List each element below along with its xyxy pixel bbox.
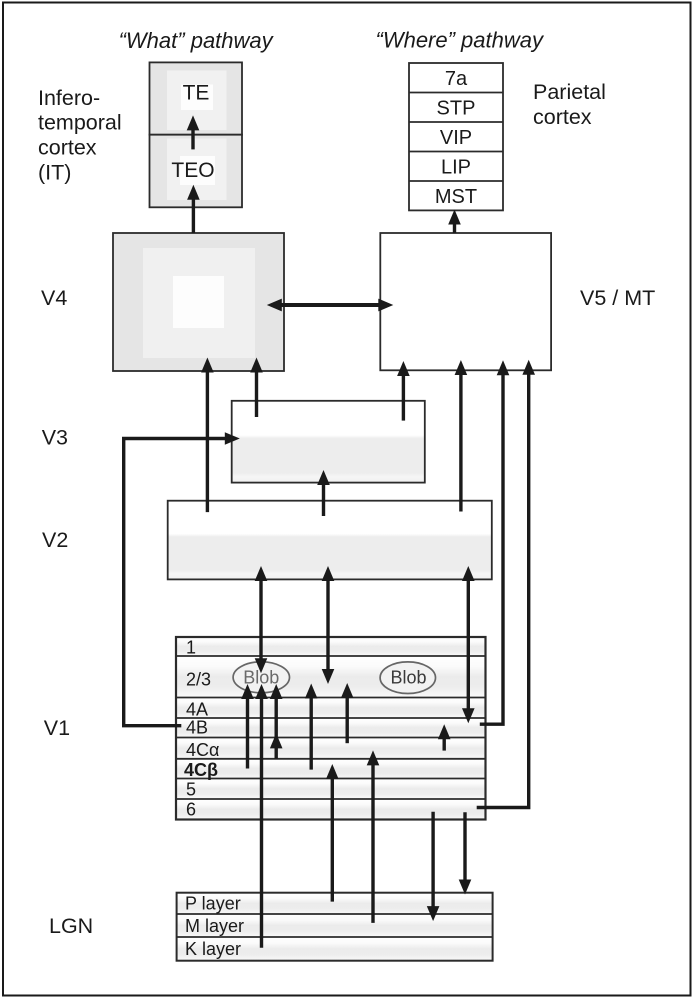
arrow 4C alpha to layer 2/3 [341, 683, 354, 743]
arrow V4 to TEO [187, 185, 200, 233]
blob ellipse right [380, 662, 435, 694]
svg-text:LIP: LIP [441, 157, 471, 179]
arrow 4C alpha to blob [270, 684, 283, 759]
svg-text:6: 6 [186, 800, 196, 820]
svg-text:V3: V3 [42, 426, 68, 450]
svg-text:4Cβ: 4Cβ [184, 760, 218, 780]
svg-text:4B: 4B [186, 718, 208, 738]
svg-text:(IT): (IT) [38, 161, 71, 185]
LGN row labels [185, 894, 244, 960]
arrow V5/MT to MST [448, 210, 461, 234]
arrow 4C alpha to 4B right [438, 724, 451, 750]
arrow V2 to V3 [317, 470, 330, 516]
box V4 [113, 233, 284, 371]
box V5/MT [380, 233, 551, 370]
svg-text:2/3: 2/3 [186, 670, 211, 690]
arrow V2 to V4 [201, 358, 214, 513]
arrow LGN K layer to blob [255, 684, 268, 948]
arrow V3 to V5/MT [397, 361, 410, 421]
svg-text:MST: MST [435, 186, 477, 208]
double arrow V2 and layer 2/3 [322, 566, 335, 684]
svg-text:Parietal: Parietal [533, 80, 606, 104]
svg-text:V1: V1 [44, 716, 70, 740]
svg-text:“What” pathway: “What” pathway [119, 28, 275, 53]
box TEO [150, 135, 243, 208]
blob ellipse left [233, 662, 289, 693]
arrow V3 to V4 [250, 358, 263, 418]
wire 4B feedback loop to V3 [124, 432, 240, 726]
svg-text:V5 / MT: V5 / MT [580, 286, 655, 310]
svg-text:Infero-: Infero- [38, 86, 100, 110]
arrow LGN M layer to 4C alpha [367, 750, 380, 923]
double arrow V4 and V5/MT [267, 299, 394, 312]
svg-text:V2: V2 [42, 528, 68, 552]
svg-text:P layer: P layer [185, 894, 241, 914]
arrow 4C beta to layer 2/3 [305, 684, 318, 770]
wire layer 6 to V5/MT right route [477, 360, 535, 808]
svg-text:TEO: TEO [171, 159, 214, 182]
double arrow V2 and layer 4B [462, 566, 475, 723]
arrow layer 6 to LGN P layer [459, 812, 472, 894]
arrowhead 4C alpha to 4B [270, 733, 283, 748]
svg-text:temporal: temporal [38, 111, 122, 135]
box parietal stack 7a STP VIP LIP MST [409, 63, 503, 210]
arrow LGN P layer to 4C beta [326, 764, 339, 902]
box V3 [232, 401, 425, 483]
box V1 layers [176, 637, 486, 820]
double arrow V2 and blob [255, 566, 268, 673]
svg-text:4Cα: 4Cα [186, 740, 219, 760]
svg-text:1: 1 [186, 638, 196, 658]
svg-text:V4: V4 [41, 286, 67, 310]
svg-text:Blob: Blob [390, 668, 426, 688]
svg-text:LGN: LGN [49, 914, 93, 938]
box V2 [168, 501, 492, 580]
svg-text:VIP: VIP [440, 127, 472, 149]
svg-text:5: 5 [186, 780, 196, 800]
arrow 4C beta to blob [241, 684, 254, 769]
svg-text:M layer: M layer [185, 916, 244, 936]
svg-text:7a: 7a [445, 68, 468, 90]
svg-text:“Where” pathway: “Where” pathway [376, 28, 546, 53]
svg-text:STP: STP [437, 98, 476, 120]
svg-text:cortex: cortex [533, 105, 592, 129]
arrow layer 6 to LGN M layer [427, 812, 440, 921]
svg-text:K layer: K layer [185, 939, 241, 959]
arrow TEO to TE [187, 115, 200, 149]
label Inferotemporal cortex (IT) [38, 86, 122, 185]
arrow V2 to V5/MT [455, 360, 468, 512]
V1 row labels [184, 638, 219, 820]
svg-text:cortex: cortex [38, 136, 97, 160]
svg-text:4A: 4A [186, 700, 208, 720]
box LGN layers [177, 893, 493, 961]
wire 4B to V5/MT right route [480, 360, 510, 724]
svg-text:TE: TE [183, 82, 210, 105]
label Parietal cortex [533, 80, 606, 129]
box TE [150, 62, 243, 134]
